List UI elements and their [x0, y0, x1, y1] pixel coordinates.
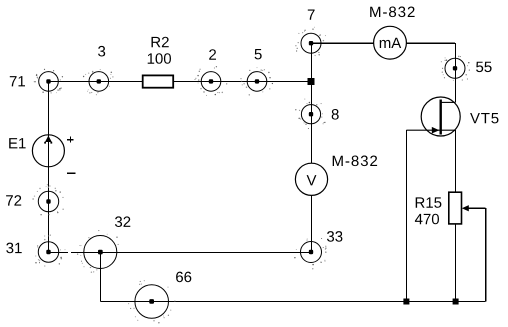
- label 8: [332, 109, 339, 120]
- wire: node 32 down to bottom rail: [99, 252, 101, 301]
- terminal node 3: [83, 69, 114, 95]
- label R2: [152, 37, 169, 48]
- wire bottom rail through node 66 to wiper corner: [100, 301, 485, 303]
- junction: gate wire on bottom rail: [403, 299, 409, 305]
- wire left column: node 71 down through E1 and node 72 to node 31: [48, 81, 50, 252]
- E1 plus sign: [67, 137, 74, 143]
- label 3: [98, 46, 105, 57]
- terminal node 31: [35, 234, 65, 266]
- label M-832: [333, 156, 377, 167]
- wire: node 32 to node 33: [100, 251, 311, 253]
- terminal node 5: [240, 67, 273, 96]
- label 470: [415, 214, 439, 225]
- junction: R15 lead on bottom rail: [453, 299, 459, 305]
- terminal node 2: [194, 66, 227, 96]
- E1 minus sign: [67, 172, 76, 174]
- terminal node 72: [33, 184, 64, 215]
- wire: node 7 down through junction and node 8 to voltmeter top: [311, 43, 313, 163]
- wire: R2 right lead to junction below node 7: [173, 80, 311, 82]
- label 5: [255, 49, 262, 59]
- label 33: [327, 231, 342, 242]
- label M-832: [370, 7, 414, 18]
- label 32: [115, 216, 130, 227]
- wire: R15 bottom lead to bottom rail: [454, 224, 456, 302]
- source E1: [32, 135, 64, 167]
- wire: VT5 gate lead down to bottom rail: [405, 130, 407, 301]
- terminal node 71: [34, 69, 63, 94]
- R15 wiper arrow: [462, 205, 469, 211]
- wire: node 31 to node 32 (small break): [49, 251, 69, 253]
- label 71: [10, 76, 25, 86]
- label VT5: [470, 113, 498, 123]
- label 55: [476, 62, 492, 72]
- terminal node 66: [128, 280, 175, 323]
- terminal node 7: [295, 27, 326, 56]
- label 66: [176, 272, 191, 283]
- wire: VT5 source down to R15 top lead: [454, 130, 456, 192]
- junction on top row below node 7: [308, 78, 315, 85]
- label R15: [416, 197, 442, 207]
- label 7: [308, 10, 315, 20]
- label 100: [148, 53, 171, 64]
- label E1: [9, 138, 25, 148]
- ammeter mA (M-832): [374, 26, 407, 59]
- voltmeter V (M-832): [295, 163, 327, 195]
- wire: ammeter right to corner and down through node 55 to VT5 drain: [406, 42, 455, 44]
- terminal node 55: [441, 56, 470, 81]
- transistor VT5: [406, 97, 460, 136]
- label 31: [6, 243, 21, 254]
- wire: R15 wiper to right column and down to bottom rail: [467, 207, 486, 209]
- label 72: [6, 195, 21, 206]
- wire: voltmeter bottom to node 33: [311, 195, 313, 252]
- resistor R15 (potentiometer body): [449, 192, 462, 224]
- resistor R2: [143, 75, 174, 87]
- terminal node 33: [294, 238, 326, 269]
- label 2: [209, 49, 216, 60]
- terminal node 32: [77, 230, 119, 273]
- wire top row: node 71 to R2 left lead: [49, 80, 143, 82]
- wire: node 7 to ammeter left: [311, 42, 374, 44]
- terminal node 8: [295, 99, 326, 129]
